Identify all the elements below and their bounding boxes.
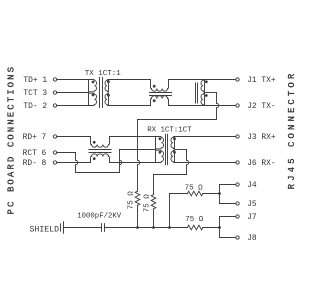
wire R4 to J7/J8 junction [203, 227, 220, 229]
transformer T1 secondary winding lower half [105, 93, 109, 105]
ground rail segment [154, 227, 170, 229]
T2 phase dot lower [205, 94, 208, 97]
svg-text:RD- 8: RD- 8 [23, 159, 47, 168]
wire to J8 [220, 237, 236, 239]
terminal J5 [236, 202, 239, 205]
wire T3 secondary center tap [175, 149, 187, 151]
transformer T3 primary winding upper half [156, 137, 164, 149]
transformer T1 secondary winding upper half [105, 80, 109, 92]
svg-text:J5: J5 [247, 200, 257, 209]
wire T3 tap across toward R2 [154, 174, 187, 176]
wire L2 top to T3 primary top [110, 136, 156, 138]
svg-text:J7: J7 [247, 213, 257, 222]
wire to J4 [220, 184, 236, 186]
wire shield to capacitor C1 [64, 227, 102, 229]
svg-text:TX 1CT:1: TX 1CT:1 [85, 70, 122, 78]
wire T2 tap down to R1 (hops over RX bottom wire) [138, 120, 140, 192]
svg-text:RJ45 CONNECTOR: RJ45 CONNECTOR [287, 71, 297, 190]
wire T1 secondary bottom to choke L1 [109, 105, 151, 107]
terminal pin 1 (TD+) [53, 78, 56, 81]
T1 primary phase dot upper [92, 81, 95, 84]
resistor R3 75 ohm (J4/J5 termination) [187, 191, 202, 196]
svg-text:1000pF/2KV: 1000pF/2KV [77, 213, 121, 221]
terminal J8 [236, 236, 239, 239]
wire T2 tap across to left [138, 119, 217, 121]
junction dot J7/J8 [218, 226, 221, 229]
choke L2 core [89, 149, 111, 151]
shield terminal small plate [60, 224, 62, 231]
transformer T3 secondary winding lower half [171, 150, 174, 162]
svg-text:TD- 2: TD- 2 [23, 102, 47, 111]
wire RD+ to choke L2 top [57, 136, 91, 138]
ground rail segment to R4 [170, 227, 188, 229]
terminal J1 [236, 78, 239, 81]
T3 secondary phase dot lower [173, 151, 176, 154]
svg-text:J1 TX+: J1 TX+ [247, 76, 276, 85]
terminal J6 [236, 161, 239, 164]
wire C1 to ground rail [105, 227, 138, 229]
wire T3 tap down to R2 [153, 175, 155, 195]
junction dot R2/rail [152, 226, 155, 229]
capacitor C1 left plate [101, 224, 103, 232]
wire RCT right [57, 152, 76, 154]
wire to resistor R3 [170, 193, 188, 195]
svg-text:75 Ω: 75 Ω [185, 216, 204, 224]
terminal pin 8 (RD-) [53, 161, 56, 164]
svg-text:J3 RX+: J3 RX+ [247, 133, 276, 142]
wire L2 bottom to T3 primary bottom [110, 162, 156, 164]
L2 top coil phase dot [93, 141, 96, 144]
shield terminal large plate [63, 222, 65, 234]
terminal pin 7 (RD+) [53, 135, 56, 138]
T3 primary phase dot lower [159, 151, 162, 154]
choke L2 bottom coil [91, 154, 110, 163]
L1 top coil phase dot [153, 85, 156, 88]
choke L1 top coil [151, 80, 169, 92]
T3 secondary phase dot upper [173, 137, 176, 140]
svg-text:TD+ 1: TD+ 1 [23, 76, 47, 85]
terminal pin 3 (TCT) [53, 91, 56, 94]
wire rail up to R3 wire [169, 194, 171, 228]
autotransformer T2 core [195, 83, 197, 103]
wire T2 tap vertical (hops over J2 wire) [217, 93, 219, 120]
wire L1 bottom to J2 [169, 105, 236, 107]
svg-text:TCT 3: TCT 3 [23, 89, 47, 98]
svg-text:75 Ω: 75 Ω [144, 194, 152, 213]
svg-text:J4: J4 [247, 181, 257, 190]
T2 phase dot upper [205, 80, 208, 83]
svg-text:RD+ 7: RD+ 7 [23, 133, 47, 142]
svg-text:RCT 6: RCT 6 [23, 149, 47, 158]
T3 primary phase dot upper [159, 137, 162, 140]
wire RCT down (hops over RD- wire) [76, 153, 78, 173]
svg-text:75 Ω: 75 Ω [128, 191, 136, 210]
T1 primary phase dot lower [92, 94, 95, 97]
choke L1 bottom coil [151, 96, 169, 106]
resistor R4 75 ohm (J7/J8 termination) [187, 225, 202, 230]
ground rail segment [138, 227, 154, 229]
wire RCT under choke L2 [76, 172, 120, 174]
junction dot J4/J5 [218, 192, 221, 195]
T1 secondary phase dot lower [107, 94, 110, 97]
wire TD- to T1 primary bottom [57, 105, 89, 107]
wire T1 secondary top to choke L1 [109, 79, 151, 81]
wire L1 top to J1 [169, 79, 236, 81]
wire to J7 [220, 216, 236, 218]
svg-text:75 Ω: 75 Ω [185, 184, 204, 192]
terminal pin 2 (TD-) [53, 104, 56, 107]
choke L2 top coil [91, 137, 110, 148]
wire T3 secondary bottom to J6 [175, 162, 236, 164]
terminal J7 [236, 215, 239, 218]
wire R1 to ground rail [137, 205, 139, 227]
wire RCT tap to T3 primary center [120, 149, 156, 151]
L1 bottom coil phase dot [153, 99, 156, 102]
wire to J5 [220, 203, 236, 205]
svg-text:PC BOARD CONNECTIONS: PC BOARD CONNECTIONS [6, 65, 16, 215]
transformer T3 core [165, 134, 167, 164]
terminal pin 6 (RCT) [53, 151, 56, 154]
wire TD+ to T1 primary top [57, 79, 89, 81]
transformer T1 primary winding upper half [89, 80, 97, 92]
wire J7/J8 vertical [219, 217, 221, 238]
wire RD- to choke L2 bottom [57, 162, 91, 164]
wire T3 tap down (hops over J6 wire) [187, 150, 189, 175]
svg-text:J6 RX-: J6 RX- [247, 159, 275, 168]
junction dot R1/rail [136, 226, 139, 229]
transformer T1 primary winding lower half [89, 93, 97, 105]
transformer T3 primary winding lower half [156, 150, 164, 162]
autotransformer T2 winding upper half [201, 80, 205, 92]
svg-text:SHIELD: SHIELD [30, 225, 60, 234]
wire R2 to ground rail [153, 209, 155, 228]
T1 secondary phase dot upper [107, 80, 110, 83]
choke L1 core [150, 92, 172, 94]
L2 bottom coil phase dot [93, 157, 96, 160]
terminal J2 [236, 104, 239, 107]
resistor R1 75 ohm (TX tap termination) [135, 191, 140, 205]
wire T3 secondary top to J3 [175, 136, 236, 138]
svg-text:J2 TX-: J2 TX- [247, 102, 275, 111]
wire TCT to T1 primary center tap [57, 92, 89, 94]
wire RCT up to T3 center tap (hops over bottom wire) [120, 150, 122, 173]
terminal J4 [236, 183, 239, 186]
terminal J3 [236, 135, 239, 138]
resistor R2 75 ohm (RX tap termination) [151, 195, 156, 209]
capacitor C1 right plate [104, 224, 106, 232]
autotransformer T2 winding lower half [201, 93, 205, 105]
svg-text:RX 1CT:1CT: RX 1CT:1CT [147, 126, 192, 134]
transformer T1 core [99, 78, 101, 108]
svg-text:J8: J8 [247, 234, 257, 243]
wire R3 to J4/J5 junction [203, 193, 220, 195]
junction dot R3 branch/rail [168, 226, 171, 229]
wire T2 center tap [205, 92, 217, 94]
wire J4/J5 vertical [219, 185, 221, 204]
transformer T3 secondary winding upper half [171, 137, 174, 149]
